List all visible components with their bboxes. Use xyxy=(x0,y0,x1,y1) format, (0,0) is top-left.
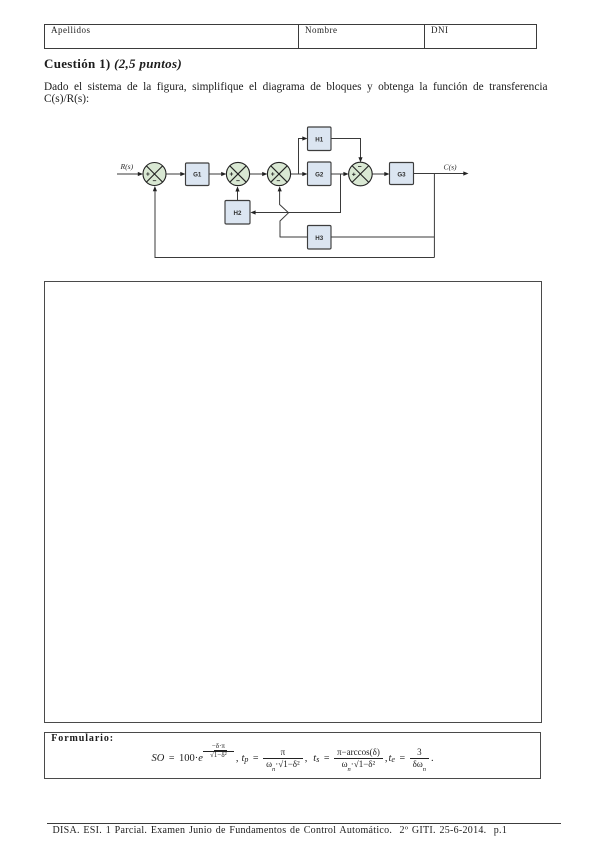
svg-text:H2: H2 xyxy=(234,210,242,217)
arrow into G1 xyxy=(180,172,185,176)
summing junction J3 xyxy=(267,162,290,185)
svg-text:G3: G3 xyxy=(397,171,406,178)
summing junction J2 xyxy=(226,162,249,185)
svg-text:G2: G2 xyxy=(315,172,324,179)
arrow into J4 top xyxy=(358,157,362,162)
svg-text:H3: H3 xyxy=(315,235,323,242)
arrow into H1 xyxy=(302,136,307,140)
arrow into H2 xyxy=(250,210,255,214)
wire J4 to G3 xyxy=(372,173,387,175)
svg-text:G1: G1 xyxy=(193,172,202,179)
paragraph xyxy=(44,81,548,93)
block G2 xyxy=(308,162,332,186)
wire branch to H1 xyxy=(299,139,304,175)
wire G3 to C(s) output xyxy=(414,173,466,175)
arrow into J2 xyxy=(221,172,226,176)
header table xyxy=(44,24,537,49)
wire H2 output up to J2 xyxy=(237,191,239,201)
arrow output C(s) xyxy=(463,171,468,175)
arrow into J2 bottom xyxy=(235,186,239,191)
formula chunk 3: ts xyxy=(313,757,387,759)
arrowheads xyxy=(138,136,469,214)
svg-text:H1: H1 xyxy=(315,136,323,143)
footer xyxy=(47,823,561,824)
arrow into J1 xyxy=(138,172,143,176)
arrow into G2 xyxy=(302,172,307,176)
heading xyxy=(44,56,182,72)
svg-text:R(s): R(s) xyxy=(120,162,134,171)
wire J1 to G1 xyxy=(166,173,183,175)
wire J2 to J3 xyxy=(250,173,265,175)
wire H1 to J4 xyxy=(331,139,361,159)
wire branch G2 out to H2 xyxy=(255,174,341,213)
wire J3 to G2 xyxy=(291,173,305,175)
block H1 xyxy=(308,127,332,151)
block H3 xyxy=(308,226,332,250)
wire G2 to J4 xyxy=(331,173,346,175)
svg-text:C(s): C(s) xyxy=(444,163,458,172)
summing junction J4 xyxy=(349,162,373,186)
wire G1 to J2 xyxy=(209,173,224,175)
arrow into J3 xyxy=(262,172,267,176)
arrow into J1 bottom xyxy=(153,186,157,191)
formula chunk 2: tp xyxy=(242,757,308,759)
wire H3 output to J3 with jog xyxy=(280,191,308,237)
wire R(s) input xyxy=(117,173,140,175)
formula chunk 4: te xyxy=(389,757,434,759)
answer box xyxy=(44,281,542,723)
wire outer feedback to J1 xyxy=(155,191,434,258)
arrow into G3 xyxy=(384,172,389,176)
summing junction J1 xyxy=(143,163,166,186)
wire C branch to H3 input xyxy=(332,236,435,238)
block H2 xyxy=(225,201,250,225)
arrow into J3 bottom xyxy=(278,186,282,191)
formula chunk 1: SO = 100 e^(...) xyxy=(152,757,239,759)
block G1 xyxy=(186,163,210,186)
formulario box xyxy=(44,732,541,779)
arrow into J4 left xyxy=(343,172,348,176)
block G3 xyxy=(390,163,414,185)
wire branch C(s) down xyxy=(433,174,435,258)
